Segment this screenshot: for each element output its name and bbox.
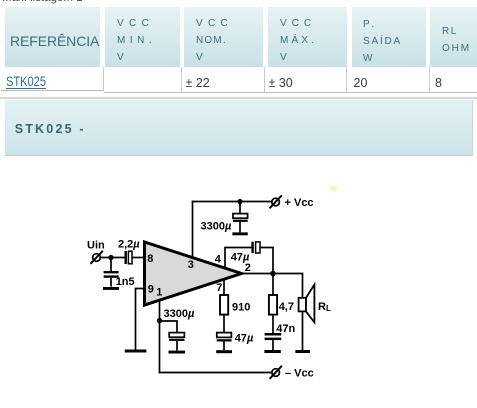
wire speaker to ground [302,311,304,350]
capacitor 3300µ upper [233,202,248,233]
resistor 4,7 [269,295,277,315]
svg-text:47µ: 47µ [231,251,250,263]
capacitor 47n [265,333,282,350]
svg-text:3300µ: 3300µ [164,308,195,320]
data row cell 8 [430,67,477,93]
wire C 2,2µ to pin 8 [132,257,145,259]
table outer bottom border line [0,97,477,98]
terminal +Vcc [270,195,282,208]
ground bar 1n5 [103,287,119,290]
capacitor 1n5 [104,258,119,287]
resistor 910 [220,295,228,315]
svg-text:4: 4 [215,253,222,265]
capacitor 2,2µ [126,251,132,264]
wire pin 1 down to -Vcc rail [159,301,161,374]
wire R 4,7 to 47n [272,315,274,333]
svg-text:3300µ: 3300µ [201,221,232,233]
clipped top text "Max. listagem 1" [2,0,83,4]
ground bar lower 3300µ [169,351,186,354]
svg-text:47µ: 47µ [235,333,254,345]
node +Vcc rail junction [237,199,242,204]
node pin 1 junction [157,318,162,323]
table header cell VCC MÁX. V [268,7,347,67]
wire junction to 3300µ lower [160,321,178,333]
svg-text:7: 7 [216,282,222,294]
wire output pin 2 [241,273,303,275]
terminal -Vcc [270,366,282,379]
wire +Vcc rail [192,201,272,203]
data row cell empty (VCC MIN.) [104,67,182,93]
svg-text:2,2µ: 2,2µ [118,239,140,251]
svg-text:9: 9 [148,284,154,296]
wire pin 7 to R 910 [223,279,225,295]
svg-text:Uin: Uin [87,240,105,252]
wire -Vcc rail [159,372,272,374]
ground bar speaker [295,350,310,353]
wire R 910 to 47µ [223,315,225,333]
wire output node to R 4,7 [272,274,274,296]
svg-text:47n: 47n [276,323,295,335]
section band STK025 - [5,100,473,156]
table header cell RL OHM [430,7,477,67]
ground bar lower 47µ [216,350,232,353]
wire pin 4 up and right [225,248,252,269]
node input junction [108,255,113,260]
table header cell VCC MIN. V [105,7,180,67]
node output junction [270,271,276,277]
data row cell 20 [347,67,430,93]
ground bar upper 3300µ [232,232,247,235]
data row cell ±22 [182,67,265,93]
data row cell STK025 link [1,67,104,91]
svg-text:3: 3 [188,259,194,271]
capacitor 47µ lower [217,333,232,351]
capacitor 47µ bootstrap [253,242,260,254]
input terminal Uin [91,251,103,264]
wire pin 3 to +Vcc rail [192,201,194,259]
ground bar pin 9 [125,350,147,353]
svg-text:1n5: 1n5 [116,276,135,288]
svg-text:8: 8 [147,253,153,265]
svg-text:RL: RL [318,301,331,313]
wire input terminal to C 2,2µ [101,257,125,259]
data row cell ±30 [265,67,347,93]
svg-text:2: 2 [245,262,251,274]
svg-text:+ Vcc: + Vcc [285,197,314,209]
table header cell P. SAÍDA W [352,7,426,67]
svg-text:1: 1 [156,287,162,299]
scan smudge (faint) [327,184,340,193]
capacitor 3300µ lower [169,333,184,351]
table header cell VCC NOM. V [184,7,263,67]
op-amp U1 STK025 [145,242,242,305]
table header cell REFERÊNCIA [5,7,100,67]
ground bar 47n [264,350,280,353]
speaker RL [299,285,315,323]
svg-text:4,7: 4,7 [279,301,294,313]
svg-text:910: 910 [232,302,250,314]
wire 47µ to output node [260,248,273,274]
svg-text:– Vcc: – Vcc [285,368,314,380]
wire output to speaker [302,273,304,298]
wire pin 9 stub and down [136,289,146,351]
